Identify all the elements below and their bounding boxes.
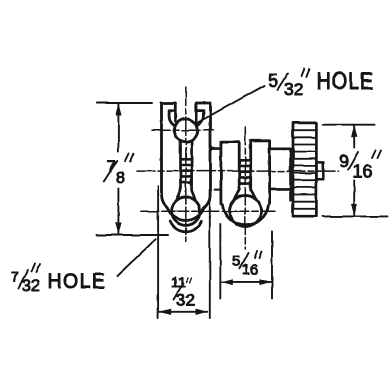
dimension 9/16 line upper segment — [353, 126, 355, 148]
dimension 5/16 arrow left — [221, 279, 233, 285]
dimension 9/16 line lower segment — [353, 181, 355, 216]
screw tip — [316, 162, 323, 179]
centerline vertical left clip — [185, 87, 187, 242]
svg-text:16: 16 — [353, 162, 373, 182]
leader line 5/32 hole — [197, 86, 265, 124]
step between clips — [211, 147, 221, 150]
dimension 11/32 right extension line — [209, 191, 211, 319]
label 9/16 — [339, 150, 381, 182]
dimension 5/16 left extension line — [219, 224, 221, 299]
right clip right post — [251, 141, 270, 204]
dimension 7/8 arrow up — [115, 104, 121, 116]
right clip slot flare right — [251, 189, 257, 199]
left clip T-slot left notch — [169, 103, 175, 125]
dimension 11/32 arrow left — [159, 309, 171, 315]
left clip neck right line with flare — [192, 141, 196, 200]
label 5/16 — [232, 252, 262, 279]
left clip top edge right segment and right edge — [196, 103, 210, 191]
dimension 7/8 arrow down — [115, 223, 121, 235]
dimension 9/16 arrow up — [351, 125, 357, 137]
dimension 7/8 line upper segment — [117, 104, 119, 151]
dimension 9/16 top extension line — [323, 124, 375, 126]
stub at left of right post — [215, 189, 221, 191]
svg-text:7: 7 — [11, 269, 19, 285]
svg-text:32: 32 — [176, 291, 195, 310]
svg-text:32: 32 — [284, 79, 303, 99]
label 5/32 HOLE — [268, 67, 374, 99]
dimension 9/16 arrow down — [351, 204, 357, 216]
left clip slot lines into hole — [174, 111, 177, 122]
knurled knob outline — [293, 123, 316, 216]
svg-text:32: 32 — [22, 278, 40, 295]
dimension 11/32 left extension line — [157, 186, 159, 318]
bushing top step — [270, 149, 291, 201]
knurl bands — [293, 130, 316, 209]
5/32 hole circle — [174, 119, 197, 142]
bushing bottom step — [270, 188, 293, 191]
centerline horizontal screw axis — [137, 170, 339, 172]
centerline vertical right clip — [244, 127, 246, 249]
svg-text:HOLE: HOLE — [317, 67, 375, 94]
dimension 7/8 bottom extension line — [97, 234, 169, 236]
svg-text:5: 5 — [268, 71, 278, 91]
svg-text:9: 9 — [339, 152, 349, 172]
7/32 hole big circle left — [172, 197, 200, 225]
svg-text:HOLE: HOLE — [48, 270, 107, 293]
7/32 hole big circle right — [230, 195, 262, 227]
dimension 5/16 arrow right — [259, 279, 271, 285]
label 7/32 HOLE — [11, 264, 106, 296]
label 7/8 — [104, 154, 134, 187]
left clip top edge left segment — [162, 102, 176, 105]
leader line 7/32 hole — [117, 239, 156, 276]
dimension 7/8 top extension line — [97, 102, 152, 104]
right clip bottom outer arc — [222, 205, 268, 226]
dimension 5/16 line — [221, 281, 271, 283]
svg-text:8: 8 — [116, 170, 125, 187]
left clip T-slot right notch — [196, 103, 203, 125]
dimension 9/16 bottom extension line — [323, 215, 389, 217]
dimension 5/16 right extension line — [271, 231, 273, 299]
right clip left post — [221, 142, 239, 204]
label 11/32 — [171, 274, 195, 310]
dimension 11/32 line — [159, 311, 207, 313]
left clip inner overdraw arc — [170, 221, 201, 232]
left clip neck left line with flare — [177, 141, 181, 200]
dimension 11/32 arrow right — [196, 309, 208, 315]
svg-text:11: 11 — [171, 274, 186, 290]
dimension 7/8 line lower segment — [117, 188, 119, 234]
centerline horizontal big circles — [141, 210, 275, 212]
left clip neck thread ticks — [181, 159, 191, 182]
svg-text:16: 16 — [242, 262, 259, 279]
right clip neck thread ticks — [241, 160, 250, 183]
left clip outline: left edge and bottom outer arc — [162, 103, 211, 221]
centerline horizontal 5/32 hole — [152, 129, 214, 131]
